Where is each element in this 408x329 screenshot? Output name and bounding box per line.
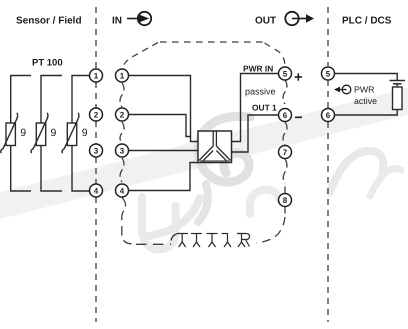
svg-text:PWR: PWR xyxy=(354,85,375,95)
DIP switch symbol 2 xyxy=(191,234,202,248)
DIP switch symbol 5 (R shape) xyxy=(237,234,250,248)
terminal circle 3 (device) xyxy=(116,144,129,157)
RTD sensor 2 xyxy=(31,113,48,153)
svg-text:6: 6 xyxy=(326,111,331,120)
terminal circle 7 (device) xyxy=(279,146,292,159)
wire isolator pin R1 to terminal 5 xyxy=(232,74,279,142)
svg-text:9: 9 xyxy=(20,127,26,139)
svg-text:active: active xyxy=(354,96,377,106)
isolation amplifier box xyxy=(198,131,232,163)
svg-text:5: 5 xyxy=(326,70,331,79)
terminal circle 6 (device) xyxy=(279,109,292,122)
svg-text:6: 6 xyxy=(283,111,288,120)
plus sign xyxy=(295,73,302,80)
svg-text:5: 5 xyxy=(283,70,288,79)
svg-text:OUT 1: OUT 1 xyxy=(252,103,277,113)
minus sign xyxy=(295,116,302,118)
terminal circle 2 (device) xyxy=(116,108,129,121)
watermark curl center tail xyxy=(198,184,208,222)
terminal circle 5 (device) xyxy=(279,67,292,80)
terminal circle 4 (sensor line) xyxy=(90,184,103,197)
device dashed outline left edge wiggles xyxy=(120,83,126,222)
wire isolator pin R2 to terminal 6 xyxy=(232,115,279,152)
wire terminal1 to isolator pin L1 xyxy=(128,76,198,142)
wire battery to resistor xyxy=(396,84,398,87)
terminal circle 3 (sensor line) xyxy=(90,144,103,157)
wire RTD3 bottom to terminal 4 xyxy=(72,146,90,192)
watermark curl center xyxy=(199,116,250,182)
svg-text:3: 3 xyxy=(94,147,99,156)
device dashed outline top-right corner xyxy=(265,43,285,65)
svg-text:OUT: OUT xyxy=(255,16,276,27)
watermark ring center-right xyxy=(250,190,280,214)
wire terminal3 to isolator pin L2 xyxy=(128,150,198,152)
svg-text:9: 9 xyxy=(82,127,88,139)
watermark curl right xyxy=(330,151,383,192)
watermark curl right 2 xyxy=(370,168,401,196)
terminal circle 1 (sensor line) xyxy=(90,69,103,82)
svg-text:9: 9 xyxy=(51,127,57,139)
svg-text:PLC / DCS: PLC / DCS xyxy=(342,16,392,27)
svg-text:2: 2 xyxy=(120,111,125,120)
RTD sensor 1 xyxy=(1,113,18,153)
wire terminal4 to isolator bottom xyxy=(128,163,198,191)
terminal circle 4 (device) xyxy=(116,184,129,197)
terminal circle 8 (device) xyxy=(279,194,292,207)
svg-text:3: 3 xyxy=(120,147,125,156)
svg-text:PT 100: PT 100 xyxy=(32,58,63,69)
terminal circle 6 (plc) xyxy=(322,109,335,122)
resistor (load) xyxy=(393,87,403,110)
svg-text:1: 1 xyxy=(94,72,99,81)
wire plc supply top xyxy=(334,74,397,81)
wire resistor to terminal 6 plc xyxy=(334,110,397,116)
svg-text:8: 8 xyxy=(283,196,288,205)
icon OUT (arrow out of circle) xyxy=(285,12,314,25)
svg-text:Sensor / Field: Sensor / Field xyxy=(16,16,82,27)
watermark bowl bottom-left xyxy=(142,197,176,250)
terminal circle 2 (sensor line) xyxy=(90,108,103,121)
icon PWR active (arrow out of circle, leftwards) xyxy=(334,85,351,94)
wire RTD1 bottom xyxy=(11,146,31,192)
terminal circle 5 (plc) xyxy=(322,67,335,80)
wire terminal2 joins xyxy=(128,115,190,137)
svg-text:passive: passive xyxy=(245,87,276,97)
device dashed outline top-left corner xyxy=(123,43,159,69)
plc/dcs dashed separator xyxy=(327,7,329,322)
wire RTD1 top xyxy=(11,76,31,124)
device dashed outline bottom-left corner xyxy=(122,226,132,244)
watermark swash xyxy=(0,98,408,208)
battery short bar xyxy=(393,83,402,85)
wire RTD2 top xyxy=(41,76,62,124)
watermark curl lower-left xyxy=(148,198,200,236)
svg-text:PWR IN: PWR IN xyxy=(243,64,273,74)
device dashed outline bottom edge left xyxy=(136,243,171,245)
DIP switch symbol 1 xyxy=(171,234,188,248)
battery long bar xyxy=(390,80,406,82)
device dashed outline top edge xyxy=(160,41,263,43)
svg-text:7: 7 xyxy=(283,148,288,157)
RTD sensor 3 xyxy=(62,113,79,153)
sensor/field dashed separator xyxy=(95,7,97,322)
wire RTD2 bottom xyxy=(41,146,62,192)
device dashed outline bottom edge right xyxy=(257,217,286,243)
svg-text:IN: IN xyxy=(112,16,122,27)
wire RTD3 top to terminal 1 xyxy=(72,76,90,124)
terminal circle 1 (device) xyxy=(116,69,129,82)
svg-text:1: 1 xyxy=(120,72,125,81)
DIP switch symbol 3 xyxy=(207,234,218,248)
device dashed outline right edge wiggles xyxy=(283,80,287,214)
svg-text:4: 4 xyxy=(94,187,99,196)
DIP switch symbol 4 (half bar) xyxy=(222,234,232,248)
icon IN (arrow into circle) xyxy=(127,12,151,25)
svg-text:2: 2 xyxy=(94,111,99,120)
svg-text:4: 4 xyxy=(120,187,125,196)
